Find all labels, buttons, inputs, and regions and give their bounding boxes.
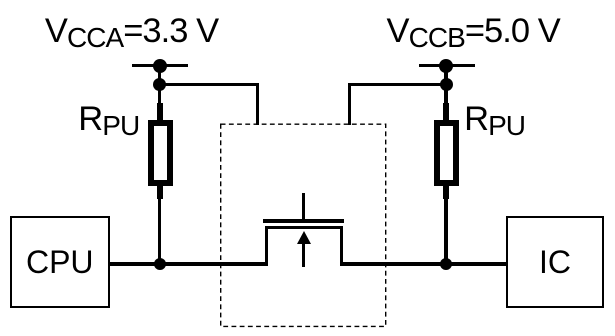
resistor RPU left bottom lead	[157, 186, 162, 199]
junction node A (VCCA branch)	[153, 78, 166, 91]
resistor RPU right body	[434, 120, 459, 186]
block IC	[506, 216, 604, 308]
net label VCCB = 5.0 V	[387, 14, 560, 52]
resistor RPU left top lead	[157, 103, 162, 121]
node dot on VCCB rail	[439, 59, 453, 73]
wire RPU left to node B	[158, 197, 161, 265]
wire CPU to MOSFET source (node B segment)	[109, 262, 268, 265]
wire MOSFET drain to IC (node D segment)	[340, 262, 507, 265]
block CPU	[10, 216, 110, 308]
wire branch node A to gate feed (horizontal)	[160, 83, 259, 86]
MOSFET gate stub	[302, 193, 305, 221]
resistor RPU right bottom lead	[443, 186, 448, 199]
MOSFET bulk arrow shaft	[302, 240, 305, 267]
junction node D (IC side)	[440, 258, 452, 270]
resistor RPU right label	[464, 102, 525, 140]
wire node C down to RPU right	[444, 85, 447, 105]
node dot on VCCA rail	[153, 59, 167, 73]
junction node C (VCCB branch)	[440, 78, 453, 91]
wire VCCA rail to branch node	[158, 65, 161, 85]
MOSFET drain leg (right)	[340, 226, 343, 266]
resistor RPU left label	[78, 102, 139, 140]
net label VCCA = 3.3 V	[45, 14, 218, 52]
resistor RPU left body	[148, 120, 173, 186]
wire branch node C to gate feed (horizontal)	[348, 83, 446, 86]
MOSFET source leg (left)	[265, 226, 268, 266]
power rail VCCB bar	[419, 64, 475, 67]
MOSFET bulk arrowhead	[297, 231, 311, 244]
MOSFET gate bar	[263, 219, 344, 223]
MOSFET channel bar	[265, 226, 343, 229]
wire node A down to RPU left	[158, 85, 161, 105]
wire gate feed right (vertical, to dashed box)	[348, 83, 351, 125]
junction node B (CPU side)	[154, 258, 166, 270]
resistor RPU right top lead	[443, 103, 448, 121]
power rail VCCA bar	[132, 64, 188, 67]
wire gate feed left (vertical, to dashed box)	[256, 83, 259, 125]
wire RPU right to node D	[444, 197, 447, 265]
wire VCCB rail to branch node	[444, 65, 447, 85]
